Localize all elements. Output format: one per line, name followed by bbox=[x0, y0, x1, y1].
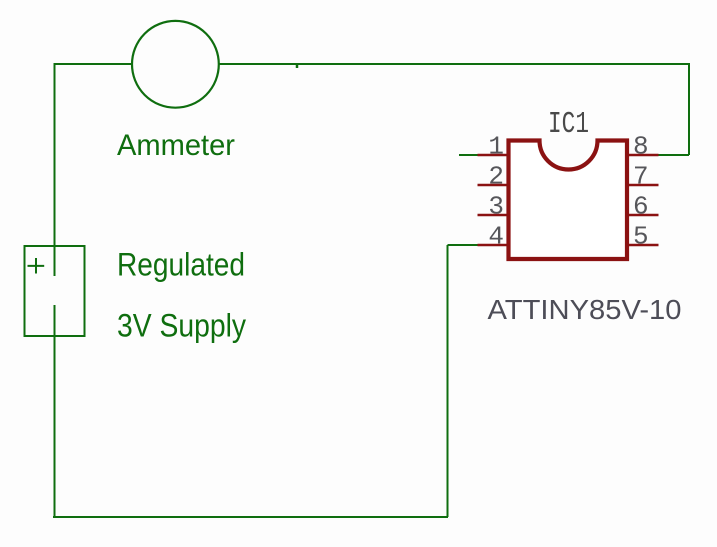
wire pin 4 horizontal bbox=[448, 244, 480, 246]
pin 3 stub bbox=[478, 214, 509, 217]
ammeter M1 circle bbox=[132, 21, 219, 108]
pin 8 stub bbox=[628, 154, 659, 157]
wire ammeter to top-right corner bbox=[218, 63, 690, 65]
svg-text:6: 6 bbox=[633, 192, 649, 222]
svg-text:3: 3 bbox=[488, 192, 504, 222]
junction tick on top wire bbox=[296, 64, 299, 68]
svg-text:ATTINY85V-10: ATTINY85V-10 bbox=[488, 294, 682, 325]
battery top plate stub bbox=[54, 246, 56, 276]
wire supply bottom vertical bbox=[54, 336, 56, 518]
plus sign horizontal stroke bbox=[28, 265, 45, 267]
svg-text:Regulated: Regulated bbox=[117, 247, 245, 283]
battery supply box bbox=[25, 246, 85, 336]
pin 5 stub bbox=[628, 244, 659, 247]
svg-text:Ammeter: Ammeter bbox=[117, 129, 235, 162]
plus sign vertical stroke bbox=[35, 258, 37, 274]
svg-text:1: 1 bbox=[488, 132, 504, 162]
svg-text:3V Supply: 3V Supply bbox=[117, 308, 246, 344]
wire pin 1 stub bbox=[459, 154, 479, 156]
pin 6 stub bbox=[628, 214, 659, 217]
svg-text:2: 2 bbox=[488, 162, 504, 192]
wire pin 8 horizontal bbox=[657, 154, 689, 156]
svg-text:IC1: IC1 bbox=[548, 107, 589, 142]
wire left vertical (ammeter down to supply) bbox=[54, 63, 56, 247]
svg-text:4: 4 bbox=[488, 222, 504, 252]
wire top-right vertical down to pin 8 bbox=[688, 63, 690, 155]
IC U1 body with notch bbox=[509, 141, 628, 260]
wire bottom horizontal bbox=[53, 516, 448, 518]
pin 4 stub bbox=[478, 244, 509, 247]
pin 7 stub bbox=[628, 184, 659, 187]
wire top-left horizontal (supply to ammeter) bbox=[54, 63, 134, 65]
svg-text:5: 5 bbox=[633, 222, 649, 252]
pin 1 stub bbox=[478, 154, 509, 157]
svg-text:7: 7 bbox=[633, 162, 649, 192]
pin 2 stub bbox=[478, 184, 509, 187]
battery bottom plate stub bbox=[54, 305, 56, 336]
svg-text:8: 8 bbox=[633, 132, 649, 162]
wire right vertical up to pin 4 bbox=[447, 245, 449, 517]
